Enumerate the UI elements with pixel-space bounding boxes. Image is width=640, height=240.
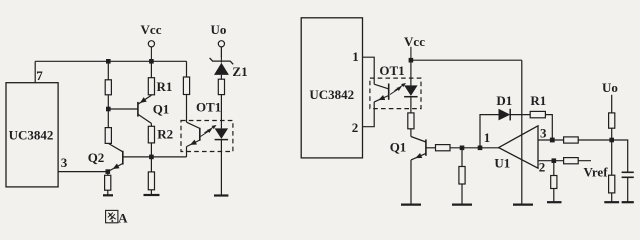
resistor below Uo junction (unlabeled) [609, 175, 615, 193]
terminal Vcc (left) [148, 41, 154, 62]
OT1 phototransistor emitter diagonal with arrow (right) [374, 95, 389, 102]
transistor Q1 bar [137, 102, 139, 117]
node junction pin3 / feedback [550, 138, 555, 143]
label U1 [494, 156, 510, 171]
wire Q2 base net [123, 156, 187, 158]
label pin 3 of U1 [540, 125, 547, 140]
ground below supply drop [513, 204, 533, 206]
wire Q1 emitter to ground (right) [410, 160, 412, 204]
ground below pin2 resistor [547, 201, 562, 203]
svg-text:D1: D1 [496, 93, 512, 108]
svg-text:R1: R1 [157, 79, 173, 94]
resistor third column (unlabeled) [183, 77, 189, 95]
label Q2 [88, 150, 105, 165]
node junction pin2 / lower resistor [552, 158, 557, 163]
caption A [118, 210, 128, 225]
wire Uo stub down [611, 95, 613, 113]
wire Uo resistor to junction [611, 128, 613, 140]
pin 2 label (right IC) [352, 120, 359, 135]
terminal Uo (left) [218, 41, 224, 58]
label Q1 (right) [390, 140, 407, 155]
wire capacitor to ground [627, 177, 629, 201]
resistor below base junction (unlabeled) [459, 167, 465, 185]
wire junction to capacitor [612, 140, 628, 172]
wire resistor to Q1 collector (right) [410, 129, 412, 137]
resistor bias lower (unlabeled) [105, 128, 111, 144]
OT1 light arrow 2 (right) [395, 83, 407, 91]
wire pin 1 to OT1 collector (right) [363, 57, 375, 84]
optocoupler OT1 dashed box (right) [370, 78, 421, 109]
svg-text:Q1: Q1 [153, 101, 170, 116]
wire junction down to lower resistor [611, 140, 613, 202]
node junction Uo divider [609, 138, 614, 143]
ground below Q2 emitter resistor [103, 194, 113, 196]
resistor below Q2 emitter (unlabeled) [105, 175, 111, 190]
zener Z1 triangle [214, 63, 229, 75]
wire Z1 to resistor [220, 75, 222, 79]
svg-text:3: 3 [61, 155, 68, 170]
pin 3 label [61, 155, 68, 170]
zener Z1 cathode bar with wings [210, 47, 234, 64]
IC U-right UC3842 box [301, 18, 362, 158]
wire U1 pin 2 row [538, 160, 591, 162]
OT1 phototransistor collector diagonal (left) [187, 122, 200, 128]
label R1 (left) [157, 79, 173, 94]
wire Q1 base [108, 108, 138, 110]
pin 1 label (right IC) [352, 49, 359, 64]
transistor Q1 collector diagonal (right) [411, 137, 426, 143]
transistor Q1 emitter diagonal with arrow (right) [411, 153, 426, 160]
svg-text:1: 1 [352, 49, 359, 64]
wire Vcc stub (right) [410, 47, 412, 60]
label Q1 (left) [153, 101, 170, 116]
node junction rail/Vcc [149, 59, 154, 64]
resistor in Uo branch (unlabeled, left) [218, 79, 224, 94]
wire resistor to LED anode (left) [220, 95, 222, 129]
node junction R2 / Q2 base / OT1 emitter [149, 155, 154, 160]
resistor bias upper (unlabeled) [105, 80, 111, 95]
OT1 light arrow 1 (left) [201, 129, 213, 137]
wire pin 2 to OT1 emitter (right) [363, 102, 375, 127]
ground below Q1 emitter (right) [401, 204, 421, 206]
svg-text:2: 2 [352, 120, 359, 135]
wire base resistor to U1 output node [450, 147, 499, 149]
ground below LED (left) [214, 194, 228, 196]
OT1 phototransistor bar (right) [388, 84, 390, 100]
ground below capacitor [622, 201, 634, 203]
svg-text:Vref: Vref [583, 165, 608, 180]
svg-text:Uo: Uo [602, 80, 618, 95]
label OT1 (left) [196, 99, 221, 114]
svg-text:Vcc: Vcc [404, 34, 425, 49]
svg-text:Z1: Z1 [232, 64, 247, 79]
label Vcc (left) [141, 22, 162, 37]
label pin 2 of U1 [539, 159, 546, 174]
wire lower divider from junction [150, 157, 152, 195]
svg-text:UC3842: UC3842 [9, 128, 54, 143]
node junction pin3 / Q2 emitter [106, 169, 111, 174]
wire Vcc rail to supply drop (right) [411, 59, 522, 61]
wire Q1 collector to R2 [150, 123, 152, 126]
resistor below R2 junction (unlabeled) [148, 172, 154, 190]
label pin 1 of U1 [484, 130, 491, 145]
svg-text:Q2: Q2 [88, 150, 105, 165]
svg-text:Vcc: Vcc [141, 22, 162, 37]
ground below R2 junction [144, 194, 160, 196]
wire left bias column [107, 61, 109, 143]
svg-text:2: 2 [539, 159, 546, 174]
wire pin2 junction down [553, 161, 555, 202]
wire Vcc to LED anode (right) [410, 60, 412, 85]
ground below base junction resistor [452, 204, 472, 206]
diode D1 [499, 109, 511, 121]
resistor R2 [148, 126, 154, 143]
wire U1 pin 3 row [538, 139, 612, 141]
OT1 light arrow 2 (left) [205, 125, 217, 133]
label D1 [496, 93, 512, 108]
node junction Vcc rail (right) [409, 58, 414, 63]
svg-text:3: 3 [540, 125, 547, 140]
svg-text:UC3842: UC3842 [309, 87, 354, 102]
transistor Q2 emitter diagonal with arrow [108, 163, 123, 171]
wire OT1 emitter down to base net (left) [186, 147, 188, 157]
label R2 [157, 127, 173, 142]
wire pin 3 to Q2 emitter junction [58, 171, 108, 173]
optocoupler OT1 dashed box (left) [181, 121, 233, 152]
label Z1 [232, 64, 247, 79]
svg-text:Q1: Q1 [390, 140, 407, 155]
wire R1 to output node [545, 115, 552, 140]
resistor R1 (right) [530, 111, 545, 117]
node junction base net / feedback [478, 146, 483, 151]
svg-text:7: 7 [36, 68, 43, 83]
wire feedback up and right to D1 [480, 115, 499, 148]
LED of OT1 (right) [404, 85, 418, 96]
OT1 light arrow 1 (right) [390, 87, 402, 95]
op-amp U1 triangle [499, 126, 538, 168]
svg-text:R1: R1 [530, 93, 546, 108]
resistor in pin2 row (unlabeled horizontal) [564, 158, 579, 164]
ground below Uo divider [604, 201, 619, 203]
OT1 phototransistor bar (left) [199, 128, 201, 141]
transistor Q1 bar (right) [425, 139, 427, 155]
svg-text:A: A [118, 210, 128, 225]
resistor in Uo branch (unlabeled, right) [609, 113, 615, 128]
wire D1 cathode to R1 (right) [510, 114, 530, 116]
transistor Q1 collector diagonal [138, 114, 152, 123]
svg-text:R2: R2 [157, 127, 173, 142]
wire LED cathode to resistor (right) [410, 97, 412, 113]
label R1 (right) [530, 93, 546, 108]
wire Q2 emitter to resistor [107, 172, 109, 196]
wire pin 7 lead from UC3842 top [34, 61, 36, 82]
LED of OT1 (left) [215, 128, 229, 139]
label Vref [583, 165, 608, 180]
wire junction down to resistor [461, 148, 463, 204]
transistor Q2 bar [122, 151, 124, 165]
wire R2 bottom to base-net junction [150, 143, 152, 157]
wire Q1 base (right) [426, 147, 436, 149]
caption 图A box glyph [106, 210, 118, 222]
OT1 phototransistor collector diagonal (right) [374, 84, 389, 89]
resistor R1 (left) [148, 78, 154, 95]
pin 7 label [36, 68, 43, 83]
OT1 phototransistor emitter diagonal with arrow (left) [187, 140, 200, 147]
wire third column from rail to OT1 collector [186, 61, 188, 122]
wire pin7 rail (top horizontal net from pin 7 to Vcc and third column) [35, 60, 186, 62]
resistor in Q1 base (unlabeled horizontal) [436, 145, 451, 151]
svg-text:U1: U1 [494, 156, 510, 171]
svg-text:OT1: OT1 [196, 99, 221, 114]
node junction bias divider / Q1 base [106, 107, 111, 112]
svg-text:OT1: OT1 [379, 63, 404, 78]
transistor Q2 collector diagonal [108, 143, 123, 151]
resistor in pin3 row (unlabeled horizontal) [564, 137, 579, 143]
label Vcc (right) [404, 34, 425, 49]
wire Vcc column upper [150, 61, 152, 95]
wire LED cathode to ground (left) [220, 140, 222, 196]
label Uo (left) [211, 22, 227, 37]
label OT1 (right) [379, 63, 404, 78]
resistor below OT1 (unlabeled, right) [408, 113, 414, 129]
svg-text:1: 1 [484, 130, 491, 145]
IC U-left UC3842 box [6, 83, 58, 187]
resistor below pin2 junction (unlabeled) [551, 176, 557, 189]
transistor Q1 emitter diagonal with arrow [138, 95, 152, 104]
wire supply drop through U1 to ground [521, 60, 523, 204]
svg-text:Uo: Uo [211, 22, 227, 37]
node junction base net / lower resistor [460, 146, 465, 151]
label Uo (right) [602, 80, 618, 95]
capacitor C (right) [622, 172, 634, 177]
node junction rail/bias column [106, 59, 111, 64]
